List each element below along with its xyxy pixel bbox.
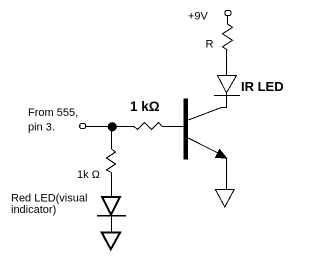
terminal T2 (from 555) [80, 123, 89, 128]
label Red LED (visual indicator) [11, 193, 87, 217]
svg-text:R: R [206, 39, 214, 51]
svg-text:pin 3.: pin 3. [28, 122, 55, 134]
label From 555, pin 3. [28, 107, 78, 134]
svg-text:1 kΩ: 1 kΩ [130, 99, 160, 114]
resistor 1k (LED) [107, 149, 116, 173]
node A (junction dot) [108, 122, 117, 131]
transistor Q1 base bar [184, 99, 189, 160]
ground (emitter) [215, 190, 234, 208]
wire terminal to node [89, 126, 109, 128]
transistor Q1 emitter [188, 138, 226, 158]
svg-text:IR LED: IR LED [241, 79, 284, 94]
resistor 1 kohm (base) [134, 122, 162, 129]
terminal T1 (+9V supply) [225, 10, 231, 15]
wire R to IR LED [226, 50, 228, 76]
svg-text:Red LED(visual: Red LED(visual [11, 193, 87, 205]
wire 1k resistor to red LED [111, 173, 113, 197]
IR LED D1 [214, 76, 240, 96]
Red LED D2 [97, 197, 126, 216]
wire node to base resistor [117, 126, 135, 128]
wire red LED to ground [111, 216, 113, 232]
wire IR LED cathode to collector [188, 95, 226, 120]
svg-text:From 555,: From 555, [28, 107, 78, 119]
wire node down to 1k resistor [111, 131, 113, 149]
resistor R [223, 24, 233, 50]
wire emitter to ground [226, 158, 228, 190]
wire base resistor to base [162, 126, 184, 128]
svg-text:1k Ω: 1k Ω [77, 169, 100, 181]
ground (red LED) [102, 233, 120, 250]
svg-text:indicator): indicator) [11, 204, 56, 216]
svg-text:+9V: +9V [188, 10, 209, 22]
wire terminal to R [227, 16, 229, 24]
